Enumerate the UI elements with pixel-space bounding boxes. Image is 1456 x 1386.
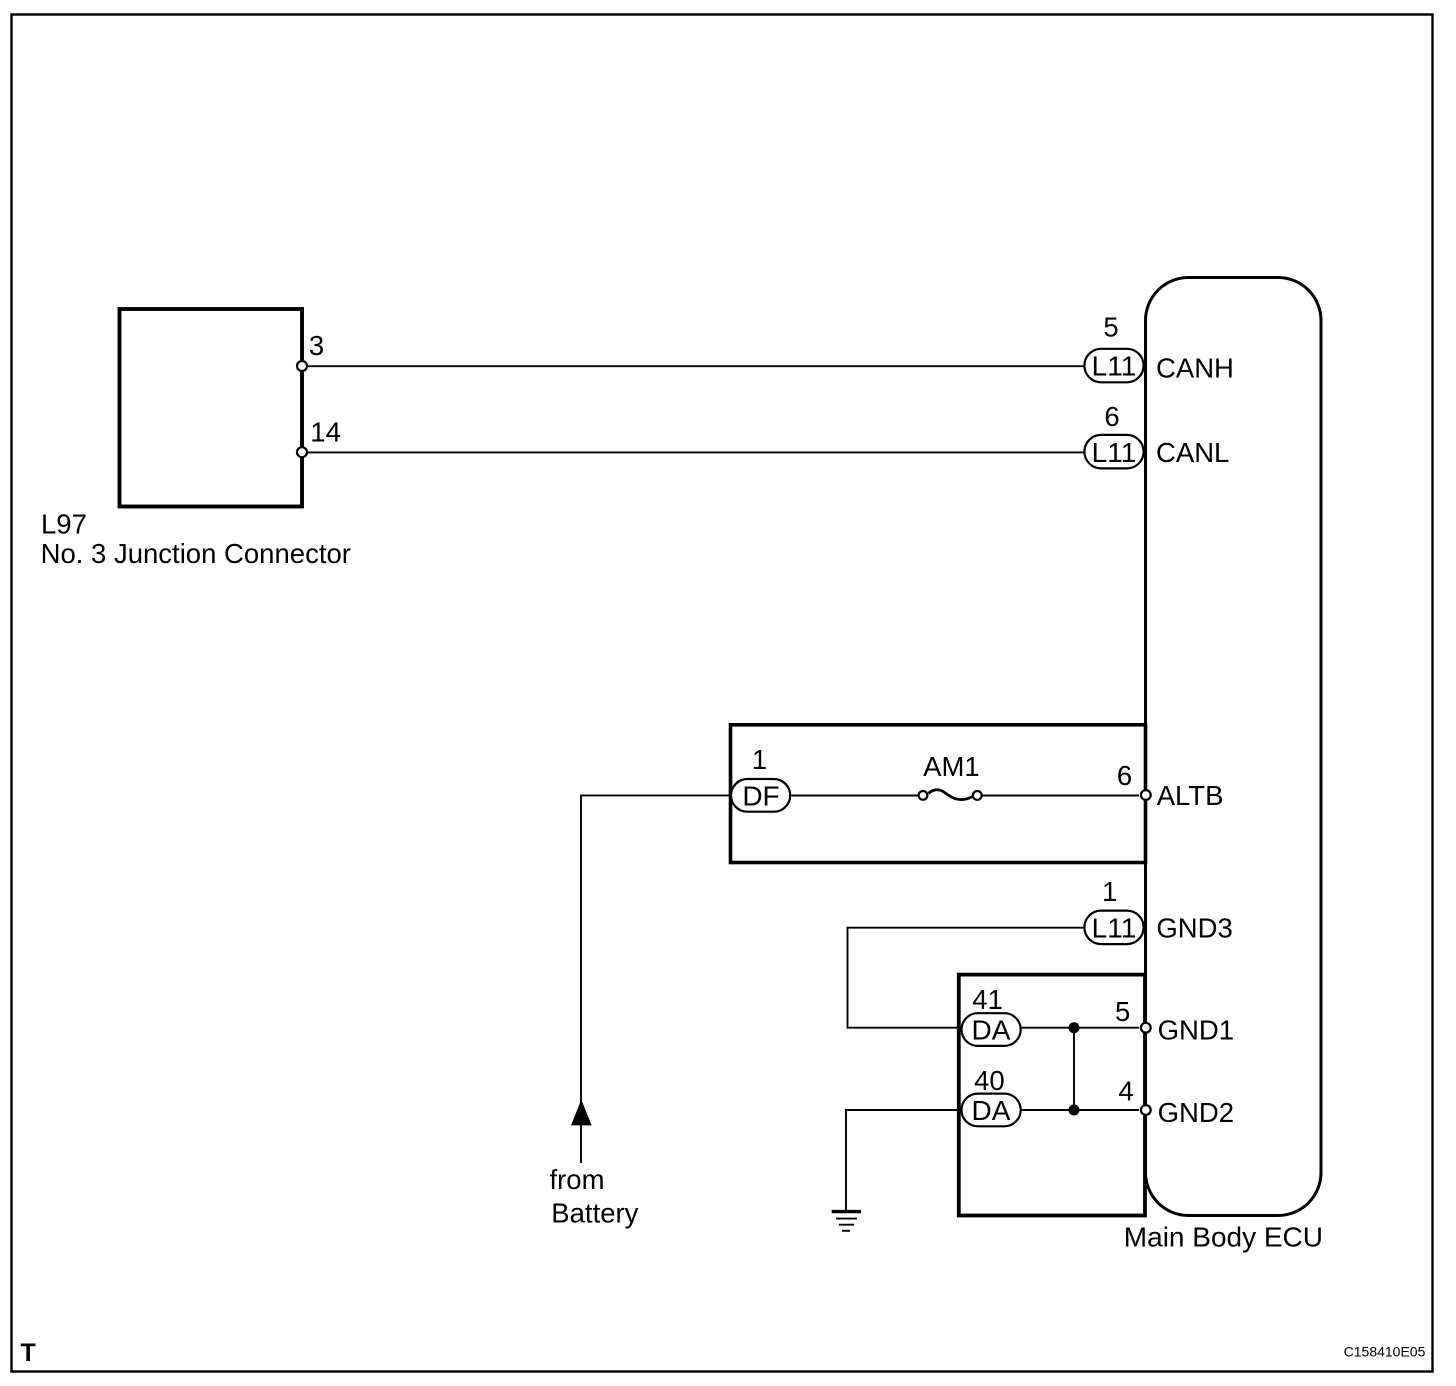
wire ground to DA40 <box>846 1110 961 1210</box>
svg-text:Battery: Battery <box>551 1198 638 1229</box>
svg-text:6: 6 <box>1117 760 1132 791</box>
connector oval DA pin 40 <box>962 1094 1021 1127</box>
svg-text:AM1: AM1 <box>923 751 980 782</box>
svg-text:from: from <box>550 1164 605 1195</box>
svg-text:GND1: GND1 <box>1158 1014 1234 1045</box>
svg-text:Main Body ECU: Main Body ECU <box>1124 1222 1323 1253</box>
connector oval DF pin 1 <box>731 779 790 812</box>
wire CANL <box>302 451 1085 453</box>
arrow from battery <box>572 1101 591 1125</box>
junction dot GND2 <box>1069 1105 1080 1116</box>
svg-text:14: 14 <box>310 417 341 448</box>
pin 14 terminal circle <box>297 447 307 457</box>
svg-text:L11: L11 <box>1092 437 1137 468</box>
svg-text:No. 3 Junction Connector: No. 3 Junction Connector <box>41 538 351 569</box>
svg-text:41: 41 <box>972 984 1003 1015</box>
svg-text:DF: DF <box>742 781 779 812</box>
svg-text:3: 3 <box>309 330 324 361</box>
svg-text:L97: L97 <box>41 509 87 540</box>
pin 6 terminal ALTB <box>1141 790 1151 800</box>
Main Body ECU outline <box>1146 278 1322 1216</box>
svg-text:GND2: GND2 <box>1158 1097 1234 1128</box>
wire DA41 to GND1 <box>1021 1027 1139 1029</box>
ground symbol <box>832 1212 861 1231</box>
wire fuse to ALTB <box>983 795 1139 797</box>
svg-text:L11: L11 <box>1092 351 1137 382</box>
wire CANH <box>302 365 1085 367</box>
svg-text:ALTB: ALTB <box>1157 780 1224 811</box>
connector oval L11 pin 6 (CANL) <box>1084 435 1143 469</box>
wire from battery riser to DF <box>581 795 731 1163</box>
svg-text:4: 4 <box>1118 1076 1133 1107</box>
pin 4 terminal GND2 <box>1141 1105 1151 1115</box>
svg-text:1: 1 <box>752 744 767 775</box>
pin 5 terminal GND1 <box>1141 1023 1151 1033</box>
svg-text:5: 5 <box>1115 996 1130 1027</box>
junction dot GND1 <box>1069 1022 1080 1033</box>
connector oval DA pin 41 <box>962 1013 1021 1046</box>
svg-text:DA: DA <box>972 1095 1011 1126</box>
svg-text:40: 40 <box>974 1065 1005 1096</box>
pin 3 terminal circle <box>297 361 307 371</box>
svg-text:L11: L11 <box>1092 912 1137 943</box>
ground block box (DA) <box>959 975 1145 1216</box>
connector oval L11 pin 5 (CANH) <box>1084 349 1143 383</box>
svg-text:5: 5 <box>1103 312 1118 343</box>
wire GND3 run <box>848 928 1085 1028</box>
svg-text:T: T <box>21 1339 36 1367</box>
wire link GND1-GND2 <box>1073 1028 1075 1110</box>
svg-text:GND3: GND3 <box>1156 912 1232 943</box>
connector oval L11 pin 1 (GND3) <box>1084 911 1143 945</box>
junction connector L97 box <box>120 309 303 507</box>
svg-text:6: 6 <box>1104 401 1119 432</box>
svg-text:CANH: CANH <box>1156 352 1234 383</box>
svg-text:DA: DA <box>972 1015 1011 1046</box>
wire DF to fuse <box>792 795 919 797</box>
relay block box (DF / AM1) <box>731 725 1146 863</box>
svg-text:1: 1 <box>1102 876 1117 907</box>
fuse AM1 <box>929 790 973 800</box>
svg-text:CANL: CANL <box>1156 437 1229 468</box>
wire DA40 to GND2 <box>1021 1109 1139 1111</box>
svg-text:C158410E05: C158410E05 <box>1344 1344 1426 1360</box>
